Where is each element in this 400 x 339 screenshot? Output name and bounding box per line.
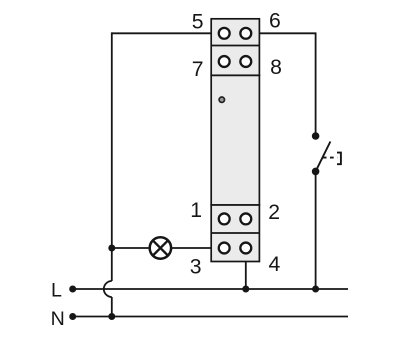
wire terminal 4 drop to L line bbox=[245, 252, 247, 289]
pushbutton switch S1 bbox=[312, 132, 341, 175]
junction on N line bbox=[108, 313, 115, 320]
svg-text:1: 1 bbox=[190, 199, 202, 222]
svg-text:N: N bbox=[51, 308, 65, 330]
svg-text:L: L bbox=[51, 280, 62, 302]
wire lamp right to terminal 3 bbox=[172, 247, 221, 249]
module body bbox=[211, 75, 259, 205]
svg-text:4: 4 bbox=[269, 253, 281, 276]
LED indicator bbox=[219, 97, 224, 102]
terminal 2 bbox=[240, 213, 251, 224]
terminal 5 bbox=[219, 28, 230, 39]
junction terminal4 / L bbox=[242, 286, 249, 293]
wire L line bbox=[73, 288, 348, 290]
N supply dot bbox=[69, 313, 76, 320]
terminal 4 bbox=[240, 243, 251, 254]
terminal 3 bbox=[219, 243, 230, 254]
svg-text:3: 3 bbox=[190, 256, 202, 279]
svg-text:6: 6 bbox=[269, 10, 281, 33]
wire hop over L line bbox=[104, 281, 112, 297]
svg-text:7: 7 bbox=[192, 58, 204, 81]
L supply dot bbox=[69, 286, 76, 293]
terminal 7 bbox=[219, 56, 230, 67]
wire top-right from terminal 6 bbox=[251, 33, 316, 136]
lamp E1 bbox=[150, 237, 171, 258]
svg-text:8: 8 bbox=[270, 56, 282, 79]
bottom terminal block bbox=[211, 205, 259, 262]
top terminal block bbox=[211, 19, 259, 76]
terminal 8 bbox=[240, 56, 251, 67]
wire left vertical bbox=[111, 32, 113, 281]
junction lamp tap bbox=[108, 245, 115, 252]
wire N line bbox=[73, 316, 348, 318]
svg-text:5: 5 bbox=[192, 11, 204, 34]
svg-text:2: 2 bbox=[268, 201, 280, 224]
terminal 6 bbox=[240, 28, 251, 39]
junction switch / L bbox=[312, 286, 319, 293]
wire switch to L line bbox=[315, 171, 317, 289]
wire top-left from terminal 5 bbox=[112, 32, 220, 34]
relay module U1 bbox=[211, 19, 259, 262]
wire left vertical lower to N bbox=[111, 297, 113, 317]
terminal 1 bbox=[219, 213, 230, 224]
wire lamp left bbox=[112, 247, 150, 249]
